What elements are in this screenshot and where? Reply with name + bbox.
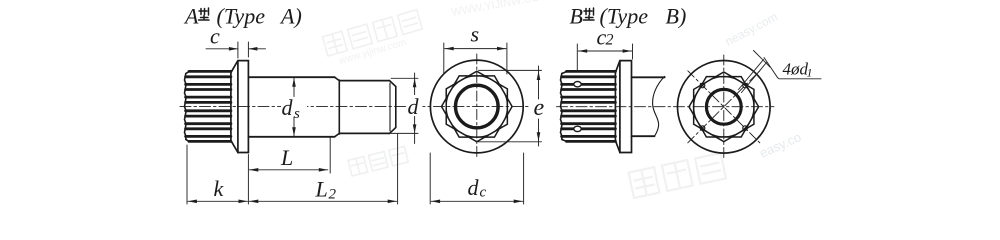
svg-text:2: 2: [329, 187, 337, 203]
hole dimension cross line: [754, 51, 771, 68]
head spline lines: [186, 71, 231, 141]
dim s line: [445, 48, 506, 50]
watermark block 5 (big ghost chars bottom middle): [629, 153, 726, 198]
B head left edge: [561, 72, 567, 142]
centerline B side: [557, 106, 775, 108]
c2 arrows: [578, 49, 587, 53]
head right edge: [230, 71, 232, 141]
hole extension line 2: [742, 63, 767, 93]
svg-text:B): B): [666, 4, 687, 29]
B chamfer circle: [694, 77, 754, 137]
shank: [248, 77, 334, 137]
wire hole lower: [574, 126, 581, 131]
B flange: [620, 61, 632, 153]
svg-text:L: L: [280, 145, 293, 170]
dims B: [577, 44, 632, 71]
B front centerlines: [723, 55, 725, 159]
c arrows: [229, 47, 238, 51]
dim k line: [188, 200, 248, 202]
svg-text:(Type: (Type: [217, 4, 266, 29]
label ds: [281, 98, 307, 116]
svg-text:2: 2: [606, 32, 614, 49]
svg-text:B: B: [570, 4, 583, 29]
dim L2 line: [249, 200, 396, 202]
bore circle bold: [456, 85, 499, 128]
leader line: [764, 58, 821, 79]
tip chamfer: [390, 81, 396, 134]
L2 arrows: [249, 200, 258, 204]
svg-text:1: 1: [807, 66, 813, 80]
e arrows: [537, 71, 541, 80]
svg-text:k: k: [214, 176, 225, 201]
dim c2 line: [578, 50, 631, 52]
B hexagon 2: [694, 72, 754, 142]
centerline A side: [180, 106, 528, 108]
dim L line: [249, 169, 327, 171]
4 wire holes on diagonals: [743, 83, 748, 88]
dim c lines: [206, 48, 266, 50]
B shank: [632, 77, 665, 136]
hole extension line 1: [739, 60, 764, 90]
svg-text:d: d: [408, 94, 420, 119]
dim ds arrows shafts: [293, 78, 295, 136]
12-point hexagon 2: [446, 71, 507, 142]
svg-text:neasy.com: neasy.com: [723, 9, 780, 48]
dim c extension lines: [238, 42, 249, 58]
dim e extension lines: [478, 70, 542, 141]
watermark block 6 (faint, under thread): [348, 146, 408, 176]
B flange cone slants: [615, 61, 620, 153]
dc arrows: [431, 200, 440, 204]
annotation 4xd1: [739, 51, 822, 93]
svg-text:d: d: [282, 95, 294, 120]
chamfer circle: [446, 76, 507, 137]
svg-text:s: s: [471, 22, 480, 47]
dim e line: [538, 66, 540, 146]
dim L extension: [329, 138, 331, 174]
dim s extension lines: [444, 43, 507, 74]
L arrows: [249, 168, 258, 172]
head left edge: [185, 72, 190, 142]
svg-text:c: c: [210, 24, 220, 49]
B hexagon 1: [689, 77, 759, 137]
k arrows: [188, 200, 197, 204]
dim d line: [414, 73, 416, 144]
label e: [533, 100, 546, 118]
ds arrows: [292, 78, 296, 87]
flange: [238, 61, 249, 153]
B flange circle: [678, 61, 771, 154]
svg-text:e: e: [534, 95, 545, 121]
dim dc line: [431, 200, 523, 202]
B diagonal hole axes: [688, 71, 760, 143]
d arrows: [413, 78, 417, 87]
front view centerlines: [476, 54, 478, 159]
label d: [407, 95, 423, 116]
s arrows: [445, 47, 454, 51]
B head spline lines: [562, 71, 616, 141]
tip chamfer edge line: [389, 83, 391, 131]
thread runout: [335, 77, 340, 137]
dims A front: [430, 43, 541, 204]
dim k extension: [186, 145, 188, 204]
svg-text:4ød: 4ød: [783, 60, 809, 79]
dim c2 extension lines: [577, 44, 632, 71]
svg-text:A: A: [183, 4, 199, 29]
B bore circle bold: [706, 89, 741, 124]
svg-text:WWW.YIJINW.COM: WWW.YIJINW.COM: [450, 0, 550, 19]
B head right edge: [614, 71, 616, 141]
svg-text:c: c: [480, 185, 487, 201]
dim d extension lines: [391, 78, 418, 133]
svg-text:easy.co: easy.co: [757, 129, 803, 161]
svg-text:d: d: [468, 175, 480, 200]
arrows A: [188, 47, 417, 203]
watermark block 1 (chinese ghost chars upper-middle): [322, 10, 422, 56]
flange face extension: [247, 155, 249, 205]
break line: [653, 76, 665, 136]
flange circle dc: [430, 60, 523, 153]
12-point hexagon 1: [442, 76, 513, 137]
svg-text:A): A): [279, 4, 302, 29]
dim dc extension lines: [430, 153, 523, 204]
svg-text:L: L: [315, 177, 328, 202]
thread body: [339, 81, 389, 134]
svg-text:s: s: [294, 106, 300, 122]
svg-text:(Type: (Type: [600, 4, 649, 29]
wire hole upper: [574, 82, 581, 87]
flange cone slants: [231, 61, 238, 153]
dim L2 extension: [397, 134, 399, 204]
